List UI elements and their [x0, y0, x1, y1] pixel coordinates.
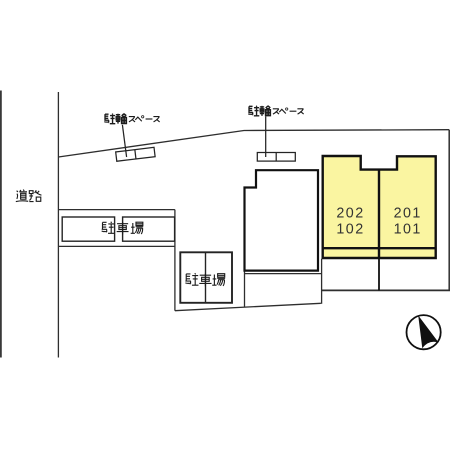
svg-text:202: 202	[336, 206, 364, 222]
svg-text:102: 102	[336, 222, 364, 238]
svg-text:201: 201	[394, 206, 422, 222]
svg-text:101: 101	[394, 222, 422, 238]
